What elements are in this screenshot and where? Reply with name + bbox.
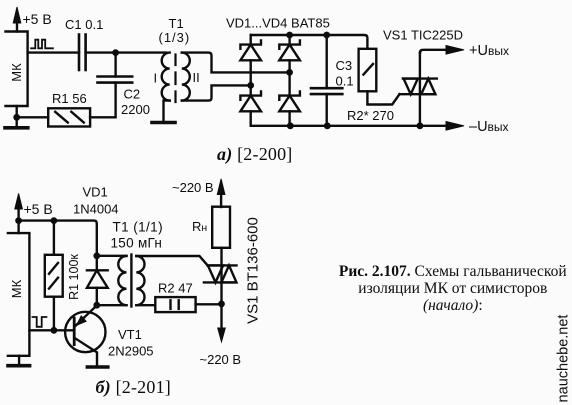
svg-text:МК: МК bbox=[9, 63, 24, 82]
svg-text:МК: МК bbox=[9, 279, 24, 298]
wire MK out to C1 bbox=[28, 51, 79, 53]
svg-text:(начало):: (начало): bbox=[423, 297, 483, 314]
node bridge AC right bbox=[286, 69, 293, 76]
svg-text:а) [2-200]: а) [2-200] bbox=[217, 144, 293, 165]
svg-text:2N2905: 2N2905 bbox=[108, 344, 154, 359]
T1 core (a, dashed) bbox=[174, 55, 176, 103]
svg-text:1N4004: 1N4004 bbox=[73, 202, 119, 217]
svg-text:T1: T1 bbox=[169, 16, 184, 31]
svg-text:I: I bbox=[154, 71, 158, 86]
svg-text:VS1 TIC225D: VS1 TIC225D bbox=[383, 28, 463, 43]
~220V down arrow bbox=[218, 328, 226, 342]
pulse symbol (b, inverted) bbox=[33, 317, 47, 327]
wire secondary top to gate bbox=[136, 256, 207, 265]
MK box (b) bbox=[8, 233, 30, 356]
svg-text:R2* 270: R2* 270 bbox=[347, 108, 394, 123]
node top rail at C3 bbox=[323, 32, 330, 39]
transformer T1 (b) secondary winding bbox=[136, 256, 144, 305]
node base/R1 junction bbox=[51, 327, 58, 334]
bridge top rail wire bbox=[251, 35, 368, 49]
svg-text:T1 (1/1): T1 (1/1) bbox=[113, 220, 163, 235]
+5V power arrow (a) bbox=[13, 7, 21, 32]
svg-text:VT1: VT1 bbox=[118, 327, 142, 342]
resistor R2 (b) bbox=[155, 297, 195, 312]
svg-text:R2 47: R2 47 bbox=[158, 281, 193, 296]
wire primary top bbox=[97, 255, 127, 257]
svg-text:Rн: Rн bbox=[192, 219, 207, 234]
wire T1 II top to bridge bbox=[182, 53, 290, 73]
svg-text:II: II bbox=[193, 70, 200, 85]
wire T1 winding I bottom lead bbox=[164, 101, 170, 121]
node top rail at VD2 bbox=[286, 32, 293, 39]
MK box (a) bbox=[6, 32, 28, 107]
capacitor C2 bbox=[90, 53, 132, 118]
svg-text:~220 В: ~220 В bbox=[172, 180, 214, 195]
svg-text:2200: 2200 bbox=[121, 102, 150, 117]
node bottom rail at VD4 bbox=[287, 122, 294, 129]
node VD1 bottom / emitter bbox=[93, 302, 100, 309]
svg-text:VD1...VD4 BAT85: VD1...VD4 BAT85 bbox=[226, 16, 330, 31]
resistor R1 (a) bbox=[48, 108, 90, 126]
transformer T1 (b) primary winding bbox=[118, 256, 126, 305]
node: MK low pin junction bbox=[13, 114, 20, 121]
node MT1/R2 junction bbox=[218, 301, 225, 308]
node rail at arrow bbox=[15, 217, 22, 224]
-U output arrow bbox=[446, 122, 464, 131]
transistor VT1 bbox=[65, 305, 105, 367]
svg-text:nauchebe.net: nauchebe.net bbox=[556, 315, 572, 403]
transformer T1 (a) winding II bbox=[182, 53, 190, 101]
svg-text:+5 В: +5 В bbox=[23, 11, 52, 27]
wire MK out to VT1 base bbox=[29, 329, 72, 331]
node bottom rail at C3 bbox=[324, 122, 331, 129]
transformer T1 (a) winding I bbox=[162, 53, 170, 101]
resistor R1 (b) bbox=[45, 221, 63, 331]
triac VS1 (b) bbox=[204, 248, 237, 330]
capacitor C3 bbox=[311, 35, 342, 126]
svg-text:C3: C3 bbox=[336, 58, 353, 73]
ground (T1 a) bbox=[152, 121, 175, 125]
svg-text:+5 В: +5 В bbox=[24, 201, 53, 217]
wire R1 to MK node bbox=[17, 116, 49, 118]
wire C1 to T1 bbox=[86, 51, 166, 53]
+U output arrow bbox=[446, 46, 464, 55]
+5V power arrow (b) bbox=[15, 194, 23, 221]
node junction C1/C2 bbox=[112, 49, 119, 56]
wire T1 II bottom to bridge bbox=[182, 85, 251, 100]
svg-text:Рис. 2.107. Схемы гальваническ: Рис. 2.107. Схемы гальванической bbox=[339, 263, 567, 280]
svg-text:VS1 BT136-600: VS1 BT136-600 bbox=[245, 217, 262, 324]
node bottom rail at VS1 bbox=[417, 122, 424, 129]
svg-text:C1 0.1: C1 0.1 bbox=[65, 17, 103, 32]
svg-text:–Uвых: –Uвых bbox=[469, 119, 509, 135]
svg-text:C2: C2 bbox=[124, 87, 141, 102]
ground (VT1) bbox=[87, 365, 107, 369]
wire primary bottom bbox=[97, 304, 127, 306]
wire VS1 MT2 to +U out bbox=[420, 50, 447, 53]
diode VD1 (b) bbox=[87, 256, 108, 305]
triac VS1 (a) bbox=[400, 53, 437, 126]
diode VD4 (bottom-right, schottky) bbox=[279, 91, 300, 125]
resistor Rn (load) bbox=[212, 207, 230, 248]
bridge bottom rail wire bbox=[251, 125, 447, 127]
svg-text:изоляции МК от симисторов: изоляции МК от симисторов bbox=[358, 280, 547, 297]
resistor R2 (a) bbox=[359, 49, 377, 92]
svg-text:б) [2-201]: б) [2-201] bbox=[96, 377, 171, 398]
svg-text:~220 В: ~220 В bbox=[200, 352, 242, 367]
svg-text:VD1: VD1 bbox=[83, 185, 108, 200]
svg-text:0.1: 0.1 bbox=[336, 74, 354, 89]
+5V rail wire (b) bbox=[19, 221, 97, 256]
diode VD1 (top-left, schottky) bbox=[240, 35, 261, 96]
pulse symbol (a) bbox=[31, 40, 53, 49]
svg-text:150 мГн: 150 мГн bbox=[111, 236, 163, 251]
ground (b MK) bbox=[8, 364, 30, 368]
diode VD3 (bottom-left, schottky) bbox=[240, 91, 261, 125]
svg-text:R1 56: R1 56 bbox=[52, 91, 87, 106]
wire secondary bottom to R2 bbox=[136, 304, 155, 306]
node VD1 top / primary top bbox=[93, 252, 100, 259]
svg-text:(1/3): (1/3) bbox=[159, 30, 191, 45]
wire rail to MK (b) bbox=[17, 221, 19, 234]
T1 core (b) bbox=[130, 255, 132, 307]
MK ground stub (a) bbox=[16, 106, 18, 126]
svg-text:R1 100к: R1 100к bbox=[67, 254, 81, 300]
ground (a MK) bbox=[5, 126, 28, 130]
~220V up arrow bbox=[217, 179, 225, 207]
MK ground stub (b) bbox=[18, 356, 20, 364]
diode VD2 (top-right, schottky) bbox=[279, 35, 300, 96]
node rail at R1 bbox=[51, 217, 58, 224]
wire R2 to MT1 node bbox=[196, 303, 222, 305]
node bridge AC left bbox=[247, 82, 254, 89]
wire R2 to gate bbox=[367, 91, 399, 104]
capacitor C1 bbox=[79, 35, 86, 71]
svg-text:+Uвых: +Uвых bbox=[469, 43, 509, 59]
